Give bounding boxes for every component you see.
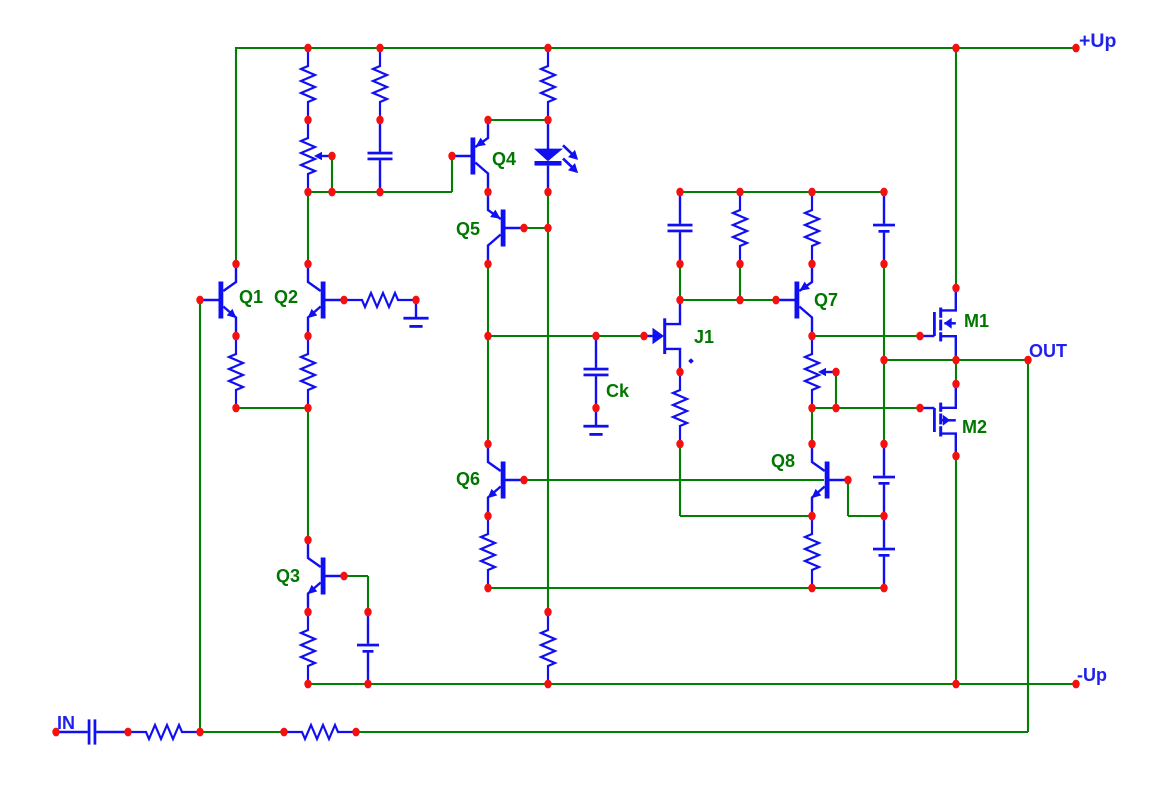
svg-text:IN: IN — [57, 713, 75, 733]
junction (812,264) — [808, 260, 815, 269]
label ref Q8 — [771, 451, 795, 471]
wire gate line y336 — [488, 335, 644, 337]
capacitor C in — [56, 719, 128, 744]
junction (1076,684) — [1072, 680, 1079, 689]
wire y192 bus — [308, 191, 452, 193]
svg-text:Q7: Q7 — [814, 290, 838, 310]
JFET J1 — [644, 300, 694, 372]
junction (308,336) — [304, 332, 311, 341]
wire Q6-Q8 base line — [524, 479, 824, 481]
junction (884,264) — [880, 260, 887, 269]
junction (740,264) — [736, 260, 743, 269]
wire x884 column — [883, 264, 885, 444]
junction (548,612) — [544, 608, 551, 617]
junction (308,192) — [304, 188, 311, 197]
svg-text:Q2: Q2 — [274, 287, 298, 307]
svg-text:Q6: Q6 — [456, 469, 480, 489]
wire drop to Q3 — [307, 408, 309, 540]
capacitor (polarized) C boot2 (x884) — [873, 192, 895, 264]
svg-text:Q3: Q3 — [276, 566, 300, 586]
junction (236,408) — [232, 404, 239, 413]
wire left drop to Q1 collector — [235, 47, 237, 264]
junction (380,120) — [376, 116, 383, 125]
junction (308,120) — [304, 116, 311, 125]
resistor R q3e (x308) — [301, 612, 315, 684]
junction (680,372) — [676, 368, 683, 377]
junction (416,300) — [412, 296, 419, 305]
wire x548 column — [547, 192, 549, 612]
junction (680,192) — [676, 188, 683, 197]
junction (956,384) — [952, 380, 959, 389]
wire x488 column — [487, 264, 489, 444]
wire Q8 base drop — [847, 480, 849, 516]
resistor R bias2 (x380) — [373, 48, 387, 120]
junction (740,192) — [736, 188, 743, 197]
label net +Up — [1079, 30, 1116, 52]
junction (524,228) — [520, 224, 527, 233]
junction (524,480) — [520, 476, 527, 485]
wire link — [679, 264, 681, 300]
junction (884,192) — [880, 188, 887, 197]
junction (488,444) — [484, 440, 491, 449]
wire M1 gate line — [812, 335, 920, 337]
junction (368,612) — [364, 608, 371, 617]
MOSFET M1 — [920, 288, 956, 360]
junction (200,300) — [196, 296, 203, 305]
junction (380,192) — [376, 188, 383, 197]
svg-text:Q1: Q1 — [239, 287, 263, 307]
wire y300 line to Q7 base — [680, 299, 794, 301]
transistor Q8 — [812, 444, 849, 516]
resistor R q8e (x812) — [805, 516, 819, 588]
junction (680,264) — [676, 260, 683, 269]
wire Q8 base to cap — [848, 515, 884, 517]
junction (812,444) — [808, 440, 815, 449]
label ref Q6 — [456, 469, 480, 489]
label ref M2 — [962, 417, 987, 437]
wire drop to Q8 collector — [811, 408, 813, 444]
junction (356,732) — [352, 728, 359, 737]
junction (488,120) — [484, 116, 491, 125]
resistor R fb — [284, 725, 356, 739]
junction (548,192) — [544, 188, 551, 197]
junction (920,336) — [916, 332, 923, 341]
junction (488,516) — [484, 512, 491, 521]
junction (56,732) — [52, 728, 59, 737]
resistor R in1 — [128, 725, 200, 739]
wire P2 wiper drop — [835, 372, 837, 408]
resistor R tail (x548) — [541, 612, 555, 684]
svg-text:Q4: Q4 — [492, 149, 516, 169]
wire feedback column — [1027, 360, 1029, 732]
wire P1 wiper drop — [331, 156, 333, 192]
junction (332,192) — [328, 188, 335, 197]
junction (200,732) — [196, 728, 203, 737]
label ref Q1 — [239, 287, 263, 307]
junction (884,516) — [880, 512, 887, 521]
resistor R j1s (x680) — [673, 372, 687, 444]
wire sub-rail y192 — [680, 191, 884, 193]
transistor Q2 — [308, 264, 345, 336]
wire Q3 base drop — [367, 576, 369, 612]
label ref Q4 — [492, 149, 516, 169]
wire J1 to Q8 emitter — [680, 515, 812, 517]
wire Q5 base link — [524, 227, 548, 229]
junction (308,264) — [304, 260, 311, 269]
capacitor (polarized) C m1 (x884) — [873, 444, 895, 516]
junction (680,444) — [676, 440, 683, 449]
junction (812,588) — [808, 584, 815, 593]
wire in node — [200, 731, 284, 733]
junction (548,120) — [544, 116, 551, 125]
wire M2 gate line — [812, 407, 920, 409]
capacitor (polarized) C m2 (x884) — [873, 516, 895, 588]
label net IN — [57, 713, 75, 733]
label ref Q7 — [814, 290, 838, 310]
transistor Q6 — [488, 444, 525, 516]
junction (740,300) — [736, 296, 743, 305]
resistor R bias1 (x308) — [301, 48, 315, 120]
resistor R q7e (x812) — [805, 192, 819, 264]
junction (812,408) — [808, 404, 815, 413]
MOSFET M2 — [920, 384, 956, 456]
junction (956,456) — [952, 452, 959, 461]
svg-text:M2: M2 — [962, 417, 987, 437]
junction (236,336) — [232, 332, 239, 341]
wire drop to Q2 collector — [307, 191, 309, 264]
svg-text:Q8: Q8 — [771, 451, 795, 471]
wire OUT line — [884, 359, 1028, 361]
junction (836,408) — [832, 404, 839, 413]
LED D1 — [534, 120, 578, 192]
wire M1-M2 link — [955, 360, 957, 384]
junction (344,576) — [340, 572, 347, 581]
resistor R led (x548) — [541, 48, 555, 120]
junction (1076,48) — [1072, 44, 1079, 53]
junction (548,684) — [544, 680, 551, 689]
capacitor C boot1 (x680) — [668, 192, 693, 264]
svg-text:-Up: -Up — [1077, 665, 1107, 685]
junction (308,48) — [304, 44, 311, 53]
resistor R e2 (x308) — [301, 336, 315, 408]
junction (380,48) — [376, 44, 383, 53]
junction (452,156) — [448, 152, 455, 161]
junction (488,336) — [484, 332, 491, 341]
label ref Q2 — [274, 287, 298, 307]
svg-text:+Up: +Up — [1079, 30, 1116, 52]
junction (236,264) — [232, 260, 239, 269]
capacitor Ck — [584, 336, 609, 408]
label net -Up — [1077, 665, 1107, 685]
resistor R boot1 (x740) — [733, 192, 747, 264]
junction (548,228) — [544, 224, 551, 233]
junction (920,408) — [916, 404, 923, 413]
transistor Q7 — [776, 264, 812, 336]
junction (812,336) — [808, 332, 815, 341]
junction (956,48) — [952, 44, 959, 53]
wire M1 drain column — [955, 47, 957, 288]
junction (488,264) — [484, 260, 491, 269]
junction (956,684) — [952, 680, 959, 689]
svg-text:J1: J1 — [694, 327, 714, 347]
resistor R e1 (x236) — [229, 336, 243, 408]
svg-text:Q5: Q5 — [456, 219, 480, 239]
junction (332,156) — [328, 152, 335, 161]
wire y588 bus — [488, 587, 884, 589]
junction (956,360) — [952, 356, 959, 365]
junction (308,540) — [304, 536, 311, 545]
junction (848,480) — [844, 476, 851, 485]
junction (884,588) — [880, 584, 887, 593]
junction (596,336) — [592, 332, 599, 341]
junction (308,408) — [304, 404, 311, 413]
svg-text:Ck: Ck — [606, 381, 630, 401]
junction (596,408) — [592, 404, 599, 413]
junction (488,588) — [484, 584, 491, 593]
label net OUT — [1029, 341, 1067, 361]
wire +Up rail — [235, 47, 1077, 49]
label ref J1 — [694, 327, 714, 347]
label ref M1 — [964, 311, 989, 331]
resistor R q2base — [344, 293, 416, 307]
label ref Ck — [606, 381, 630, 401]
wire -Up rail — [307, 683, 1077, 685]
junction (344,300) — [340, 296, 347, 305]
junction (1028,360) — [1024, 356, 1031, 365]
junction (884,444) — [880, 440, 887, 449]
capacitor C bias (x380) — [368, 120, 393, 192]
wire link — [739, 264, 741, 300]
wire Q4 collector to LED — [488, 119, 548, 121]
transistor Q1 — [200, 264, 237, 336]
junction (812,516) — [808, 512, 815, 521]
wire Q4 base riser — [451, 155, 453, 192]
transistor Q4 — [452, 120, 488, 192]
junction (680,300) — [676, 296, 683, 305]
junction (884,360) — [880, 356, 887, 365]
svg-text:M1: M1 — [964, 311, 989, 331]
label ref Q3 — [276, 566, 300, 586]
wire M2 drain column — [955, 456, 957, 684]
wire emitter resistors join — [236, 407, 308, 409]
wire Q1 base column — [199, 300, 201, 732]
transistor Q3 — [308, 540, 345, 612]
junction (308,612) — [304, 608, 311, 617]
wire J1 source drop — [679, 444, 681, 516]
junction (776,300) — [772, 296, 779, 305]
trimmer P1 (x308) — [301, 120, 332, 192]
svg-text:OUT: OUT — [1029, 341, 1067, 361]
trimmer P2 (x812) — [805, 336, 836, 408]
capacitor (polarized) C q3 (x368) — [357, 612, 379, 684]
ground GND at Ck — [583, 408, 608, 436]
resistor R q6e (x488) — [481, 516, 495, 588]
junction (836,372) — [832, 368, 839, 377]
junction (548,48) — [544, 44, 551, 53]
junction (812,192) — [808, 188, 815, 197]
wire Q3 base link — [344, 575, 368, 577]
junction (644,336) — [640, 332, 647, 341]
junction (284,732) — [280, 728, 287, 737]
wire feedback line — [356, 731, 1028, 733]
junction (956,288) — [952, 284, 959, 293]
label ref Q5 — [456, 219, 480, 239]
transistor Q5 — [488, 192, 524, 264]
junction (128,732) — [124, 728, 131, 737]
ground GND at Q2 base — [403, 300, 428, 328]
junction (488,192) — [484, 188, 491, 197]
junction (308,684) — [304, 680, 311, 689]
junction (368,684) — [364, 680, 371, 689]
